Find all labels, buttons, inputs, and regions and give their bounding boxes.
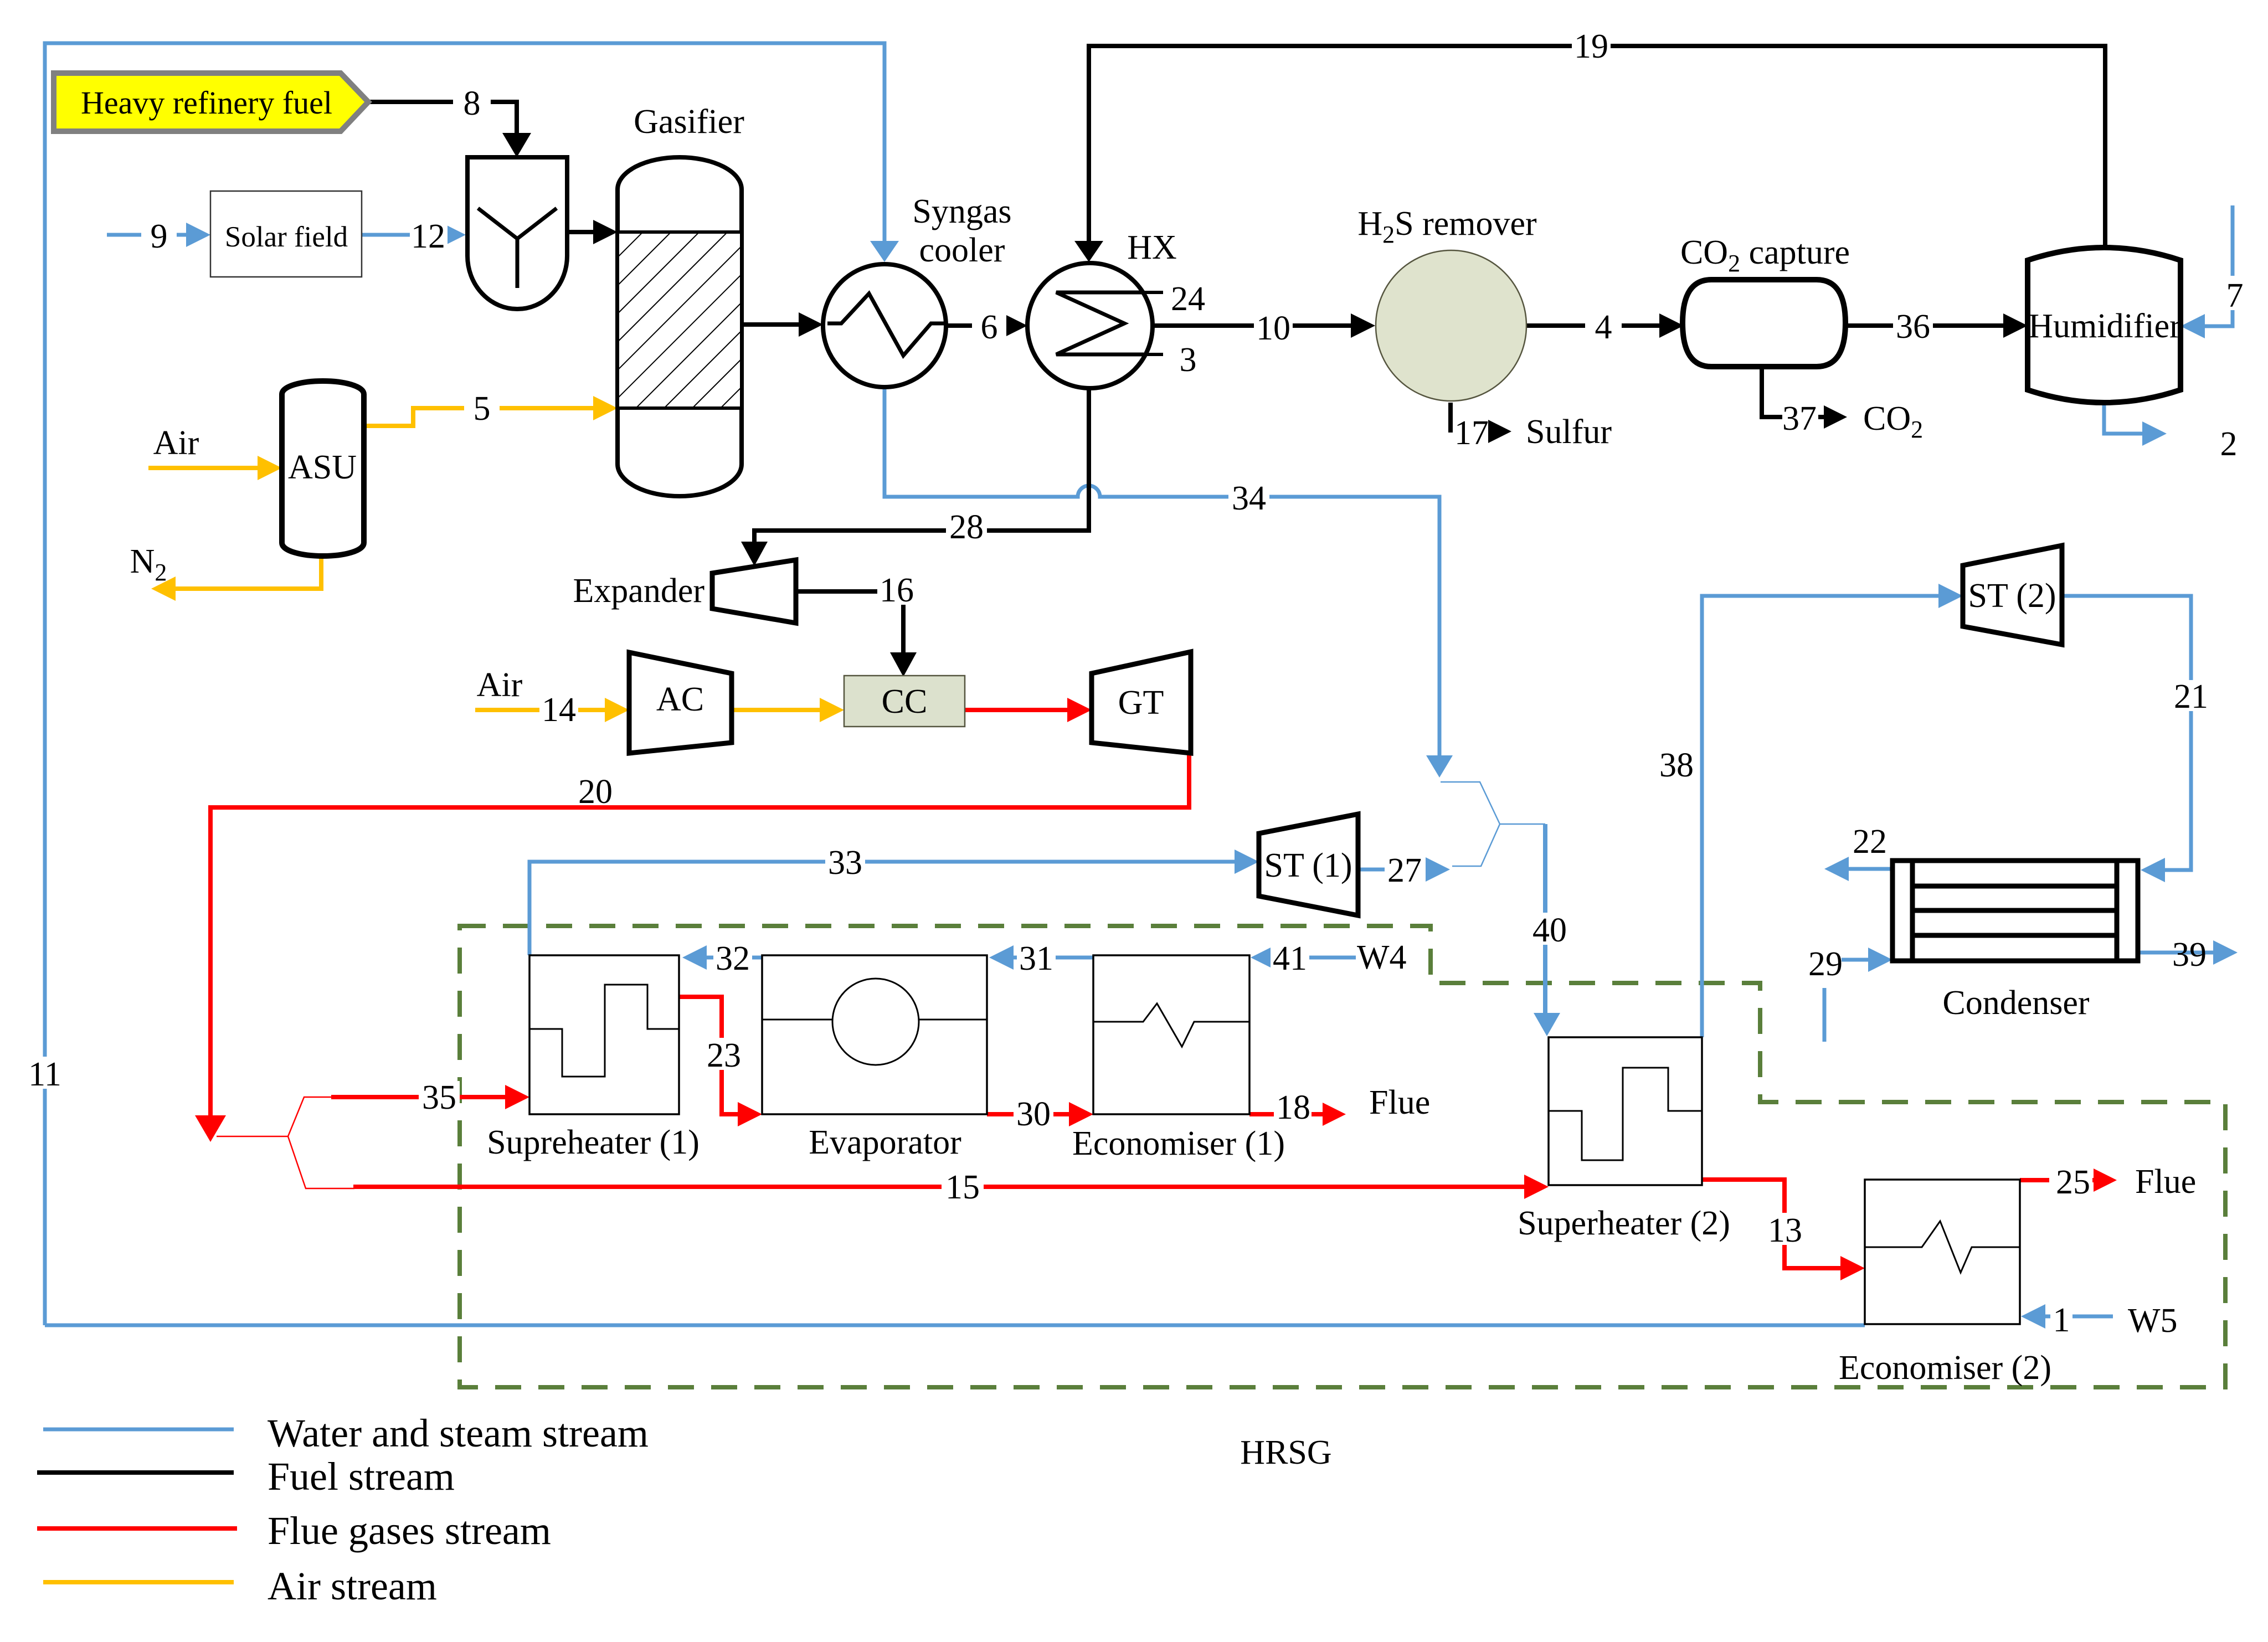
Solar field box <box>210 191 362 277</box>
svg-text:HRSG: HRSG <box>1240 1434 1331 1471</box>
svg-text:23: 23 <box>707 1037 741 1074</box>
svg-text:Air stream: Air stream <box>268 1564 437 1608</box>
svg-text:Economiser (2): Economiser (2) <box>1839 1349 2051 1387</box>
Expander turbine <box>712 560 796 623</box>
wire stream 11 water: left border up to syngas cooler <box>45 43 884 1325</box>
Superheater (2) box <box>1549 1037 1702 1185</box>
svg-text:25: 25 <box>2056 1164 2090 1201</box>
svg-text:Economiser (1): Economiser (1) <box>1072 1125 1285 1162</box>
wire stream 34: syngas cooler bottom to merge point, hop over HX line <box>884 389 1439 755</box>
svg-text:35: 35 <box>422 1079 456 1116</box>
wire stream 1: W5 to Economiser (2) <box>2045 1315 2113 1319</box>
svg-text:15: 15 <box>945 1169 980 1206</box>
wire stream 30: Evaporator to Economiser (1) <box>987 1112 1069 1116</box>
HX circle <box>1027 263 1153 388</box>
wire merge brace 34+27 to 40 <box>1441 782 1545 866</box>
svg-text:Fuel stream: Fuel stream <box>268 1454 455 1499</box>
svg-text:3: 3 <box>1180 341 1197 379</box>
stream number labels <box>28 28 2243 1339</box>
svg-text:2: 2 <box>2220 425 2238 463</box>
wire feed vessel to Gasifier <box>567 230 593 234</box>
wire stream 35 to Supreheater (1) <box>331 1095 505 1099</box>
HX sigma symbol <box>1056 292 1144 354</box>
wire stream 27 from ST (1) <box>1358 868 1424 872</box>
wire stream 8: fuel banner to feed vessel <box>368 102 517 133</box>
wire stream 12: Solar field to feed vessel <box>362 233 441 237</box>
wire stream 11 bottom water line to Economiser (2) <box>45 1324 1865 1327</box>
Gasifier vessel <box>618 157 742 496</box>
wire stream 5: ASU to Gasifier <box>364 408 593 426</box>
svg-text:38: 38 <box>1659 747 1694 784</box>
Condenser headers <box>1912 861 2117 961</box>
svg-text:ST (1): ST (1) <box>1264 847 1352 884</box>
svg-text:Flue: Flue <box>1369 1084 1430 1121</box>
CC combustor box <box>844 676 965 727</box>
wire stream 36: CO2 capture to Humidifier <box>1844 323 2003 328</box>
svg-text:Flue gases stream: Flue gases stream <box>268 1509 551 1553</box>
svg-text:AC: AC <box>656 681 704 718</box>
CO2 capture vessel <box>1683 280 1845 367</box>
svg-text:27: 27 <box>1387 852 1422 889</box>
svg-text:GT: GT <box>1118 684 1164 722</box>
svg-text:14: 14 <box>542 691 576 729</box>
wire flue gas split fork <box>217 1097 354 1188</box>
Evaporator line <box>762 1019 987 1021</box>
HRSG dashed boundary <box>460 926 2225 1387</box>
arrow stream 34 down <box>1426 755 1453 778</box>
wire stream 22 out of condenser <box>1834 867 1892 871</box>
wire N2 out of ASU <box>176 553 321 589</box>
svg-text:17: 17 <box>1454 414 1489 452</box>
wire stream 9 into Solar field <box>107 233 186 237</box>
wire AC to CC <box>732 708 820 712</box>
svg-text:Supreheater (1): Supreheater (1) <box>487 1124 700 1161</box>
svg-text:9: 9 <box>151 218 168 255</box>
Economiser (1) zigzag <box>1093 1003 1249 1047</box>
svg-text:11: 11 <box>28 1056 61 1093</box>
AC compressor <box>629 652 732 753</box>
wire stream 19: HX to Humidifier <box>1089 46 2105 248</box>
svg-text:HX: HX <box>1127 229 1177 266</box>
ST (2) steam turbine <box>1963 545 2062 645</box>
wire stream 4: H2S remover to CO2 capture <box>1526 323 1659 328</box>
wire stream 18: Economiser (1) to Flue <box>1249 1112 1323 1116</box>
legend air line <box>43 1580 234 1584</box>
wire stream 10: HX to H2S remover <box>1153 323 1351 328</box>
svg-text:18: 18 <box>1276 1089 1310 1126</box>
wire stream 2 out of Humidifier <box>2104 402 2142 434</box>
wire stream 33: Supreheater (1) to ST (1) <box>529 862 1235 955</box>
wire stream 23: Supreheater (1) to Evaporator <box>679 997 738 1114</box>
svg-text:W5: W5 <box>2128 1302 2178 1340</box>
svg-text:4: 4 <box>1595 308 1612 346</box>
wire stream 15 to Superheater (2) <box>353 1185 1524 1189</box>
wire CC to GT <box>965 708 1067 712</box>
legend flue line <box>37 1526 237 1531</box>
svg-text:Air: Air <box>477 666 523 704</box>
HX stub 24 <box>1143 291 1163 294</box>
Syngas cooler circle <box>823 264 946 387</box>
wire stream 31: Economiser (1) to Evaporator <box>1014 956 1093 960</box>
svg-text:19: 19 <box>1574 28 1608 65</box>
H2S remover circle <box>1376 250 1526 401</box>
svg-text:CC: CC <box>882 683 928 720</box>
feed mixing vessel <box>467 157 567 309</box>
Economiser (1) box <box>1093 955 1249 1114</box>
svg-text:41: 41 <box>1273 940 1307 977</box>
wire stream 29 stub below <box>1823 988 1827 1042</box>
svg-text:CO2 capture: CO2 capture <box>1680 234 1850 277</box>
svg-text:Gasifier: Gasifier <box>634 103 744 141</box>
svg-text:Syngas: Syngas <box>912 193 1011 230</box>
svg-text:32: 32 <box>716 940 750 977</box>
wire stream 20: GT exhaust <box>210 752 1189 1115</box>
svg-text:Superheater (2): Superheater (2) <box>1518 1205 1730 1242</box>
wire stream 13: Superheater (2) to Economiser (2) <box>1702 1180 1840 1268</box>
Heavy refinery fuel banner <box>54 73 368 131</box>
svg-text:12: 12 <box>411 218 445 255</box>
Supreheater (1) coil pattern <box>529 985 679 1077</box>
svg-text:W4: W4 <box>1357 939 1407 976</box>
svg-text:Humidifier: Humidifier <box>2028 307 2181 345</box>
svg-text:Condenser: Condenser <box>1942 984 2090 1022</box>
wire stream 16: Expander to CC <box>796 591 903 652</box>
legend water line <box>43 1428 234 1432</box>
svg-text:16: 16 <box>880 572 914 609</box>
wire stream 7 into Humidifier <box>2189 205 2233 326</box>
label gaps (white) <box>27 30 2248 1332</box>
Condenser tubes <box>1912 886 2117 935</box>
svg-text:7: 7 <box>2226 277 2244 315</box>
svg-text:29: 29 <box>1808 945 1843 983</box>
Superheater (2) coil pattern <box>1549 1068 1702 1160</box>
svg-text:36: 36 <box>1896 308 1930 346</box>
wire stream 28: HX bottom to Expander <box>754 389 1089 542</box>
svg-text:39: 39 <box>2172 936 2207 974</box>
svg-text:Air: Air <box>153 424 199 462</box>
ASU vessel <box>282 381 364 556</box>
svg-text:8: 8 <box>464 85 481 122</box>
svg-text:ASU: ASU <box>288 449 357 486</box>
svg-text:ST (2): ST (2) <box>1968 577 2056 615</box>
wire stream 38: Superheater (2) up to ST (2) <box>1702 596 1938 1037</box>
svg-text:10: 10 <box>1256 310 1290 347</box>
wire stream 25: Economiser (2) to Flue <box>2020 1178 2094 1182</box>
wire stream 21: ST (2) to condenser <box>2062 596 2191 870</box>
svg-text:13: 13 <box>1768 1212 1802 1249</box>
svg-text:Evaporator: Evaporator <box>809 1124 961 1161</box>
wire stream 29 into condenser <box>1842 958 1868 962</box>
svg-text:6: 6 <box>981 308 998 346</box>
wire air into ASU <box>148 466 258 470</box>
svg-text:33: 33 <box>828 844 862 882</box>
GT gas turbine <box>1092 652 1191 753</box>
svg-text:28: 28 <box>949 508 984 546</box>
svg-text:21: 21 <box>2174 678 2208 716</box>
svg-text:5: 5 <box>474 390 491 428</box>
svg-text:24: 24 <box>1171 280 1205 318</box>
svg-text:Heavy refinery fuel: Heavy refinery fuel <box>81 85 332 121</box>
svg-text:Solar field: Solar field <box>225 221 348 253</box>
Evaporator drum circle <box>832 979 919 1065</box>
wire stream 39 out of condenser <box>2138 951 2213 955</box>
ST (1) steam turbine <box>1259 814 1358 915</box>
Economiser (2) box <box>1865 1180 2020 1324</box>
svg-text:Sulfur: Sulfur <box>1526 413 1612 451</box>
legend <box>37 1411 649 1608</box>
wire Gasifier to syngas cooler <box>742 322 799 327</box>
device labels <box>81 85 2196 1471</box>
svg-text:37: 37 <box>1782 400 1817 437</box>
svg-text:40: 40 <box>1532 912 1567 949</box>
svg-text:Flue: Flue <box>2135 1163 2196 1201</box>
wire stream 40 down to Superheater (2) <box>1543 824 1547 1014</box>
wire stream 6: syngas cooler to HX <box>946 323 1003 328</box>
svg-text:20: 20 <box>578 773 613 811</box>
svg-text:34: 34 <box>1232 480 1266 517</box>
svg-text:22: 22 <box>1853 823 1887 861</box>
feed vessel Y symbol <box>478 208 557 288</box>
Condenser body <box>1892 861 2138 961</box>
svg-text:1: 1 <box>2053 1301 2070 1339</box>
Syngas cooler zigzag <box>827 294 944 356</box>
HX stub 3 <box>1143 353 1163 356</box>
svg-text:cooler: cooler <box>919 231 1005 269</box>
svg-text:Expander: Expander <box>573 572 704 610</box>
wire stream 41: W4 to Economiser (1) <box>1275 956 1356 960</box>
svg-text:30: 30 <box>1016 1095 1051 1133</box>
svg-text:Water and steam stream: Water and steam stream <box>268 1411 649 1455</box>
legend fuel line <box>37 1470 234 1475</box>
Evaporator box <box>762 955 987 1114</box>
wire stream 32: Evaporator to Supreheater (1) <box>707 956 762 960</box>
wire stream 17: H2S remover to Sulfur <box>1448 403 1453 433</box>
Humidifier vessel <box>2028 248 2180 403</box>
wire stream 14: air to AC <box>475 708 605 712</box>
Economiser (2) zigzag <box>1865 1221 2020 1273</box>
arrow into syngas cooler top <box>870 241 899 262</box>
Supreheater (1) box <box>529 955 679 1114</box>
svg-text:31: 31 <box>1019 940 1053 977</box>
wire stream 37: CO2 capture to CO2 <box>1762 367 1824 417</box>
